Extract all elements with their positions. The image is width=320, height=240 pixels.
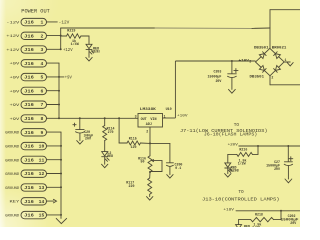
junction node pin3 bus xyxy=(60,48,62,50)
svg-text:J16: J16 xyxy=(24,157,34,163)
svg-text:J16: J16 xyxy=(24,20,34,26)
svg-text:1: 1 xyxy=(285,58,287,62)
resistor R216 xyxy=(257,146,259,154)
svg-text:2: 2 xyxy=(271,76,273,80)
svg-text:270: 270 xyxy=(108,130,114,134)
svg-text:J16: J16 xyxy=(24,199,34,205)
svg-text:7: 7 xyxy=(40,102,43,108)
svg-text:GROUND: GROUND xyxy=(5,173,20,177)
capacitor C200 xyxy=(150,142,170,144)
ground for L2 xyxy=(102,164,108,168)
svg-text:R216: R216 xyxy=(239,148,247,152)
junction node pin5 bus xyxy=(58,76,60,78)
svg-text:DB3501: DB3501 xyxy=(254,45,269,49)
ground bus arrow xyxy=(56,218,66,223)
svg-text:TO: TO xyxy=(238,190,244,195)
resistor R114 xyxy=(104,118,106,125)
ground at bridge xyxy=(287,63,293,66)
svg-text:20V: 20V xyxy=(85,136,91,140)
resistor R117 xyxy=(149,172,151,178)
resistor R219 xyxy=(61,35,67,37)
svg-text:J16: J16 xyxy=(24,75,34,81)
connector J16 pin 6 xyxy=(21,87,47,94)
junction node pin2 bus xyxy=(60,35,62,37)
svg-text:1: 1 xyxy=(40,20,43,26)
svg-text:+9V: +9V xyxy=(10,77,21,81)
svg-text:0.1: 0.1 xyxy=(175,166,181,170)
junction node pin13 bus xyxy=(60,186,62,188)
svg-text:-12V: -12V xyxy=(59,21,70,25)
wire pin1 xyxy=(47,21,58,23)
svg-text:20V: 20V xyxy=(274,167,280,171)
junction node C27 xyxy=(287,145,289,147)
svg-text:R115: R115 xyxy=(129,136,137,140)
junction node pin12 bus xyxy=(60,173,62,175)
svg-text:20V: 20V xyxy=(290,221,296,225)
svg-text:+10V: +10V xyxy=(177,114,188,118)
svg-text:3: 3 xyxy=(135,114,137,118)
wire +9V bus xyxy=(58,63,60,118)
svg-text:3: 3 xyxy=(249,59,251,63)
wire pin5 xyxy=(47,76,65,78)
svg-text:+20V: +20V xyxy=(228,143,239,147)
wire +12V rail top xyxy=(61,27,155,29)
svg-text:POWER OUT: POWER OUT xyxy=(21,8,50,14)
connector J16 pin 5 xyxy=(21,73,47,80)
junction node pin11 bus xyxy=(60,159,62,161)
wire pin15 xyxy=(47,214,62,216)
svg-text:1/4W: 1/4W xyxy=(71,42,80,47)
svg-text:J13-10(CONTROLLED LAMPS): J13-10(CONTROLLED LAMPS) xyxy=(202,196,280,202)
junction node pin8 bus xyxy=(58,117,60,119)
ground for C203 xyxy=(229,89,236,93)
svg-text:RED: RED xyxy=(107,154,113,158)
wire pin14 key arrow xyxy=(47,200,54,202)
svg-text:J16: J16 xyxy=(24,171,34,177)
capacitor C27 xyxy=(287,146,289,162)
bridge rectifier diode D2 top-right xyxy=(268,46,286,63)
wire U19 pin1 to +10V node xyxy=(163,117,176,119)
svg-text:3: 3 xyxy=(40,47,43,53)
svg-text:J16: J16 xyxy=(24,47,34,53)
junction node R218 xyxy=(280,210,282,212)
connector J16 pin 8 xyxy=(21,115,47,122)
svg-text:15000µF: 15000µF xyxy=(208,74,222,78)
bridge rectifier diode D3 bottom-left xyxy=(254,60,272,77)
connector J16 pin 10 xyxy=(21,142,47,149)
resistor R115 xyxy=(118,118,120,143)
svg-text:9: 9 xyxy=(40,130,43,136)
connector J16 pin 4 xyxy=(21,60,47,67)
svg-text:J16: J16 xyxy=(24,33,34,39)
svg-text:14: 14 xyxy=(39,199,45,205)
svg-text:GROUND: GROUND xyxy=(5,187,20,191)
svg-text:KEY: KEY xyxy=(10,201,21,205)
connector J16 pin 12 xyxy=(21,170,47,177)
svg-text:J16: J16 xyxy=(24,144,34,150)
wire pin12 xyxy=(47,173,62,175)
junction node R216 xyxy=(257,145,259,147)
bridge rectifier diode D4 bottom-right xyxy=(268,60,286,78)
potentiometer R116 xyxy=(149,143,151,155)
wire pin4 xyxy=(47,62,60,64)
wire +9V rail pin8 xyxy=(47,117,139,119)
connector J16 pin 1 xyxy=(21,18,47,25)
svg-text:8: 8 xyxy=(40,116,43,122)
junction node pin10 bus xyxy=(60,145,62,147)
junction node C203 xyxy=(231,60,233,62)
svg-text:+9V: +9V xyxy=(65,77,72,81)
ground for DS203 xyxy=(86,57,92,61)
ground for C27 xyxy=(285,179,292,183)
svg-text:+9V: +9V xyxy=(10,90,21,94)
wire ground bus xyxy=(60,132,62,218)
regulator U19 LM338K box xyxy=(138,114,163,128)
svg-text:BR0021: BR0021 xyxy=(272,45,287,49)
svg-text:2: 2 xyxy=(146,130,148,134)
svg-text:+9V: +9V xyxy=(10,104,21,108)
svg-text:-12V: -12V xyxy=(6,22,20,26)
junction node ADJ xyxy=(149,142,151,144)
svg-text:1/2W: 1/2W xyxy=(238,162,246,166)
svg-text:+12V: +12V xyxy=(6,35,20,39)
ground for DS208 xyxy=(225,174,231,178)
junction node pin15 bus xyxy=(60,214,62,216)
wire pin13 xyxy=(47,186,62,188)
connector J16 pin 9 xyxy=(21,129,47,136)
svg-text:4: 4 xyxy=(40,61,43,67)
svg-text:RED: RED xyxy=(244,225,250,227)
svg-text:50: 50 xyxy=(141,160,145,164)
junction node pin6 bus xyxy=(58,90,60,92)
junction node R115 rail xyxy=(118,117,120,119)
connector J16 pin 7 xyxy=(21,101,47,108)
svg-text:2: 2 xyxy=(40,33,43,39)
svg-text:OUT: OUT xyxy=(141,118,147,122)
svg-text:6: 6 xyxy=(40,88,43,94)
connector J16 pin 13 xyxy=(21,184,47,191)
svg-text:+12V: +12V xyxy=(63,49,73,53)
svg-text:+10V: +10V xyxy=(239,58,249,62)
svg-text:220: 220 xyxy=(129,184,135,188)
svg-text:GROUND: GROUND xyxy=(5,159,20,163)
svg-text:1: 1 xyxy=(164,115,166,119)
svg-text:+18V: +18V xyxy=(223,208,234,212)
junction node pin7 bus xyxy=(58,104,60,106)
wire pin6 xyxy=(47,90,60,92)
svg-text:J16: J16 xyxy=(24,61,34,67)
wire pin2 xyxy=(47,35,61,37)
wire pin3 xyxy=(47,48,61,50)
svg-text:GROUND: GROUND xyxy=(5,146,20,150)
svg-text:DS208: DS208 xyxy=(229,169,239,173)
svg-text:GROUND: GROUND xyxy=(5,215,20,219)
svg-text:J16: J16 xyxy=(24,130,34,136)
svg-text:13: 13 xyxy=(39,185,45,191)
connector J16 pin 15 xyxy=(21,211,47,218)
svg-text:DB3501: DB3501 xyxy=(250,74,265,78)
svg-text:+9V: +9V xyxy=(10,118,21,122)
resistor R218 xyxy=(280,211,282,220)
svg-text:J16: J16 xyxy=(24,88,34,94)
svg-text:J16: J16 xyxy=(24,102,34,108)
junction node R114 rail xyxy=(104,117,106,119)
svg-text:11: 11 xyxy=(39,157,45,163)
svg-text:120: 120 xyxy=(131,145,137,149)
wire +20V rail xyxy=(239,145,300,147)
svg-text:DS203: DS203 xyxy=(92,51,100,55)
svg-text:12: 12 xyxy=(39,171,45,177)
svg-text:C203: C203 xyxy=(213,70,221,74)
svg-text:J16: J16 xyxy=(24,185,34,191)
wire pin7 xyxy=(47,104,60,106)
bridge rectifier diode D1 top-left xyxy=(254,46,272,63)
wire +18V rail xyxy=(236,210,300,212)
wire bridge pin1 to ground xyxy=(284,61,290,63)
svg-text:10: 10 xyxy=(39,144,45,150)
svg-text:TO: TO xyxy=(234,123,240,128)
svg-text:+12V: +12V xyxy=(6,49,20,53)
junction node R116 bottom xyxy=(149,171,151,173)
connector J16 pin 14 xyxy=(21,198,47,205)
svg-text:VIN: VIN xyxy=(150,118,156,122)
svg-text:GROUND: GROUND xyxy=(5,132,20,136)
svg-text:1/2W: 1/2W xyxy=(252,226,260,228)
LED DS209 (clipped) xyxy=(238,220,240,225)
wire R219 to LED DS203 xyxy=(88,36,90,44)
svg-text:ADJ: ADJ xyxy=(146,123,152,127)
LED DS203 xyxy=(86,44,92,48)
ground for C20 xyxy=(77,141,83,145)
svg-text:U19: U19 xyxy=(166,108,172,112)
LED DS208 xyxy=(227,154,229,163)
svg-text:5: 5 xyxy=(40,75,43,81)
svg-text:R219: R219 xyxy=(67,29,75,33)
svg-text:15: 15 xyxy=(39,213,45,219)
ground for R117 xyxy=(147,197,153,201)
svg-text:20V: 20V xyxy=(215,79,221,83)
wire pin11 xyxy=(47,159,62,161)
capacitor C203 xyxy=(231,61,233,74)
ground for C200 xyxy=(167,175,173,179)
svg-text:LM338K: LM338K xyxy=(140,108,157,112)
connector J16 pin 3 xyxy=(21,46,47,53)
svg-text:J6-10(FLASH LAMPS): J6-10(FLASH LAMPS) xyxy=(204,132,258,138)
capacitor C20 xyxy=(79,118,81,129)
junction node C20 rail xyxy=(79,117,81,119)
connector J16 pin 2 xyxy=(21,32,47,39)
wire transformer input top right xyxy=(270,9,300,11)
wire bridge pin2 out xyxy=(269,76,271,85)
wire pin10 xyxy=(47,145,62,147)
svg-text:+9V: +9V xyxy=(10,63,21,67)
wire pin9 xyxy=(47,131,62,133)
wire +12V bus xyxy=(60,28,62,49)
svg-text:R218: R218 xyxy=(255,213,263,217)
svg-text:J16: J16 xyxy=(24,116,34,122)
connector J16 pin 11 xyxy=(21,156,47,163)
LED L2 xyxy=(102,152,108,156)
svg-text:J16: J16 xyxy=(24,213,34,219)
wire U19 pin2 ADJ xyxy=(149,127,151,143)
